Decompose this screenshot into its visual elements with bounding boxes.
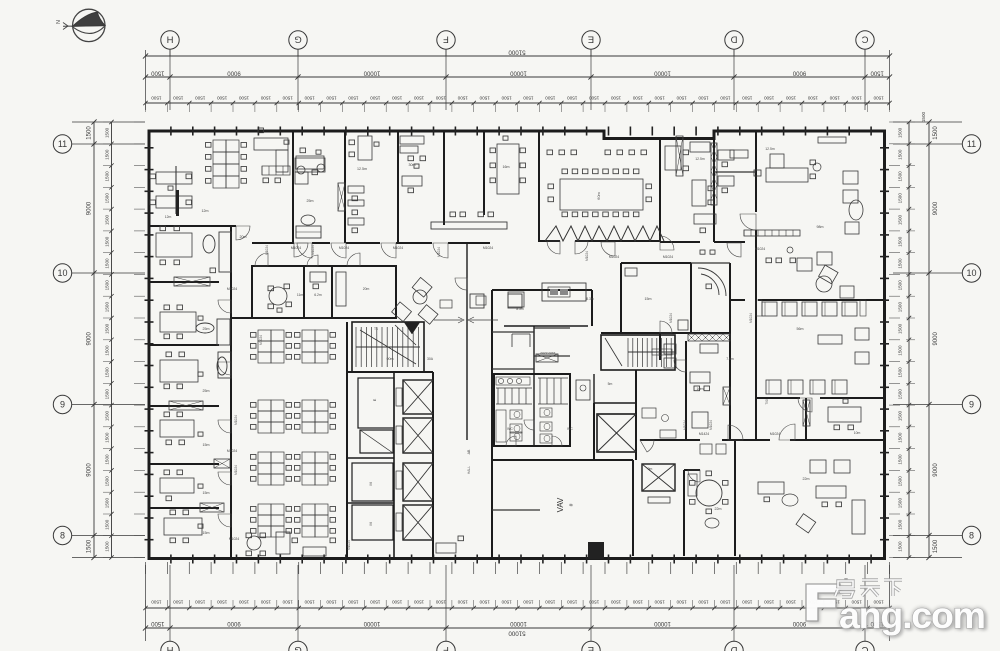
- svg-text:1500: 1500: [435, 96, 446, 101]
- svg-text:1500: 1500: [479, 96, 490, 101]
- svg-text:9: 9: [60, 400, 65, 410]
- mop room: [576, 380, 590, 400]
- small meeting table: [497, 144, 519, 194]
- svg-text:T2: T2: [658, 353, 662, 357]
- svg-text:1500: 1500: [898, 476, 903, 487]
- left office extra chairs: [198, 316, 203, 320]
- training podium: [828, 407, 861, 422]
- svg-text:8.5m: 8.5m: [516, 307, 524, 311]
- svg-text:1500: 1500: [898, 258, 903, 269]
- svg-text:12m: 12m: [165, 215, 172, 219]
- elevator mid: [597, 414, 636, 452]
- svg-text:8: 8: [60, 531, 65, 541]
- svg-text:M1024: M1024: [709, 420, 713, 430]
- svg-text:22m: 22m: [803, 477, 810, 481]
- svg-text:C: C: [861, 34, 868, 45]
- svg-text:1500: 1500: [87, 539, 93, 553]
- svg-text:10: 10: [966, 268, 976, 278]
- svg-text:20m: 20m: [363, 287, 370, 291]
- workstation cluster: [302, 504, 315, 515]
- svg-text:M1024: M1024: [437, 247, 441, 257]
- interior walls left zone: [230, 226, 232, 559]
- svg-text:1500: 1500: [898, 193, 903, 204]
- svg-text:1500: 1500: [632, 96, 643, 101]
- svg-text:1500: 1500: [260, 600, 271, 605]
- admin storage: [336, 272, 346, 306]
- womens toilets: [540, 408, 552, 417]
- stair 1: [355, 327, 357, 367]
- lounge bottom right sofa set: [810, 460, 826, 473]
- svg-text:1500: 1500: [898, 214, 903, 225]
- outer wall column ticks: [170, 127, 172, 136]
- stair2 walls: [601, 335, 675, 370]
- svg-text:1500: 1500: [173, 600, 184, 605]
- column shaft strip: [676, 136, 683, 176]
- svg-text:1500: 1500: [698, 600, 709, 605]
- top dimension band: [146, 55, 890, 57]
- svg-text:1500: 1500: [413, 96, 424, 101]
- svg-text:1500: 1500: [348, 96, 359, 101]
- svg-text:12.5m: 12.5m: [765, 147, 775, 151]
- svg-text:1500: 1500: [785, 600, 796, 605]
- svg-text:9000: 9000: [933, 463, 939, 477]
- svg-text:1500: 1500: [898, 149, 903, 160]
- svg-text:60m: 60m: [596, 191, 601, 199]
- svg-text:1500: 1500: [150, 620, 164, 626]
- svg-text:1500: 1500: [105, 214, 110, 225]
- svg-text:M1024: M1024: [339, 246, 349, 250]
- svg-text:1500: 1500: [764, 96, 775, 101]
- svg-text:1500: 1500: [523, 96, 534, 101]
- desk pair top-left: [156, 172, 192, 184]
- hatch strip vertical reception: [803, 400, 810, 426]
- office F desk set: [170, 510, 176, 515]
- svg-text:30m: 30m: [409, 163, 416, 167]
- svg-text:1500: 1500: [105, 171, 110, 182]
- reception room furniture: [156, 233, 192, 257]
- workstation cluster: [302, 330, 315, 341]
- svg-text:1500: 1500: [105, 519, 110, 530]
- svg-text:1500: 1500: [260, 96, 271, 101]
- svg-text:1500: 1500: [195, 96, 206, 101]
- outer building wall: [149, 131, 885, 559]
- svg-text:9: 9: [969, 400, 974, 410]
- svg-text:1500: 1500: [105, 258, 110, 269]
- svg-text:11m: 11m: [297, 293, 304, 297]
- svg-text:1500: 1500: [567, 600, 578, 605]
- svg-text:1500: 1500: [898, 280, 903, 291]
- svg-text:G: G: [294, 34, 301, 45]
- svg-text:1500: 1500: [392, 96, 403, 101]
- room right of conference: [665, 146, 681, 170]
- svg-text:1500: 1500: [105, 410, 110, 421]
- lobby chairs: [450, 212, 456, 217]
- svg-text:1500: 1500: [742, 600, 753, 605]
- svg-text:M1024: M1024: [609, 255, 619, 259]
- grid bubbles top: [169, 50, 171, 57]
- mid rooms around secretary: [620, 263, 622, 333]
- right mid rooms: [685, 341, 687, 440]
- svg-text:1500: 1500: [898, 389, 903, 400]
- svg-text:1500: 1500: [898, 323, 903, 334]
- X cabinet on copy room wall: [723, 387, 730, 405]
- svg-text:M1024: M1024: [311, 245, 315, 255]
- svg-text:1500: 1500: [326, 600, 337, 605]
- svg-text:1500: 1500: [921, 111, 926, 122]
- executive office wall: [755, 131, 757, 212]
- svg-text:25m: 25m: [203, 389, 210, 393]
- svg-text:1500: 1500: [898, 345, 903, 356]
- bottom right rooms: [640, 439, 700, 441]
- svg-text:ang.com: ang.com: [839, 594, 985, 636]
- svg-text:1500: 1500: [807, 96, 818, 101]
- svg-text:15m: 15m: [203, 443, 210, 447]
- workstation cluster: [258, 330, 271, 341]
- secretary room bits: [625, 268, 637, 276]
- svg-text:M1024: M1024: [755, 247, 765, 251]
- svg-text:1500: 1500: [105, 498, 110, 509]
- svg-text:1500: 1500: [217, 96, 228, 101]
- training room seat rows: [762, 302, 777, 316]
- extra corridor chairs mid right: [766, 258, 772, 263]
- svg-text:1500: 1500: [898, 302, 903, 313]
- svg-text:M1024: M1024: [770, 432, 780, 436]
- left dimension band: [93, 122, 95, 558]
- svg-text:1500: 1500: [105, 193, 110, 204]
- svg-text:9000: 9000: [87, 331, 93, 345]
- client service room furniture: [400, 136, 424, 144]
- bottom-left meeting spot: [247, 536, 261, 550]
- cabinet row: [262, 166, 290, 175]
- svg-text:M1024: M1024: [347, 540, 351, 550]
- workstation cluster: [302, 400, 315, 411]
- svg-text:25m: 25m: [307, 199, 314, 203]
- svg-text:1500: 1500: [851, 96, 862, 101]
- svg-text:1500: 1500: [238, 96, 249, 101]
- svg-text:1500: 1500: [217, 600, 228, 605]
- svg-text:M1024: M1024: [483, 246, 493, 250]
- hall storage rooms: [352, 463, 393, 501]
- svg-text:1500: 1500: [105, 345, 110, 356]
- svg-text:9000: 9000: [87, 201, 93, 215]
- svg-text:1500: 1500: [87, 126, 93, 140]
- svg-text:1500: 1500: [282, 96, 293, 101]
- bottom dimension band: [146, 607, 890, 609]
- svg-text:1500: 1500: [501, 96, 512, 101]
- restroom block: [494, 374, 570, 446]
- svg-text:1500: 1500: [105, 127, 110, 138]
- office D desk set: [164, 412, 170, 417]
- VAV room: [492, 459, 633, 461]
- svg-text:VAV: VAV: [556, 497, 565, 512]
- svg-text:1500: 1500: [105, 302, 110, 313]
- zigzag partition: [545, 226, 664, 241]
- conference table: [560, 179, 643, 210]
- call room hatch strip: [711, 143, 717, 205]
- svg-text:M1024: M1024: [663, 255, 673, 259]
- svg-text:1500: 1500: [589, 600, 600, 605]
- lounge cluster right: [819, 265, 838, 284]
- restroom door arcs: [524, 420, 534, 430]
- mens stalls: [497, 388, 499, 404]
- training room walls: [730, 299, 745, 301]
- watermark chinese chars 房天下: [835, 578, 902, 597]
- svg-text:1500: 1500: [282, 600, 293, 605]
- svg-text:1500: 1500: [501, 600, 512, 605]
- svg-text:1500: 1500: [348, 600, 359, 605]
- svg-text:1500: 1500: [720, 96, 731, 101]
- svg-text:D: D: [730, 34, 737, 45]
- svg-text:M1024: M1024: [234, 415, 238, 425]
- office B desk set: [160, 312, 196, 332]
- hatch strip mid right: [688, 334, 730, 341]
- svg-text:15m: 15m: [203, 491, 210, 495]
- svg-text:WC: WC: [567, 427, 573, 431]
- notch room desks: [718, 150, 734, 160]
- long counter: [431, 222, 507, 229]
- svg-text:1500: 1500: [523, 600, 534, 605]
- row2 small room furniture: [310, 272, 326, 282]
- deputy GM room furniture: [295, 158, 325, 172]
- svg-text:10000: 10000: [653, 70, 670, 76]
- svg-text:1500: 1500: [105, 432, 110, 443]
- svg-text:M1024: M1024: [749, 313, 753, 323]
- svg-text:C: C: [861, 644, 868, 651]
- svg-text:1500: 1500: [698, 96, 709, 101]
- row2 rooms: [252, 266, 396, 318]
- svg-text:10: 10: [57, 268, 67, 278]
- svg-text:10000: 10000: [509, 70, 526, 76]
- svg-text:1500: 1500: [105, 236, 110, 247]
- svg-text:1500: 1500: [898, 454, 903, 465]
- svg-text:AB: AB: [467, 449, 471, 454]
- svg-text:F: F: [443, 34, 449, 45]
- svg-text:M1024: M1024: [585, 251, 589, 261]
- svg-text:10m: 10m: [854, 431, 861, 435]
- svg-text:11: 11: [967, 139, 976, 149]
- grid bubbles left: [53, 135, 71, 153]
- svg-text:M: M: [368, 482, 373, 485]
- svg-text:1500: 1500: [304, 96, 315, 101]
- svg-text:90m: 90m: [387, 357, 394, 361]
- svg-text:M1024: M1024: [234, 465, 238, 475]
- svg-text:1500: 1500: [173, 96, 184, 101]
- svg-text:N: N: [56, 20, 62, 24]
- conference chairs upper row: [547, 150, 553, 155]
- svg-text:15m: 15m: [645, 297, 652, 301]
- svg-text:1500: 1500: [829, 96, 840, 101]
- workstation cluster: [213, 140, 226, 152]
- svg-text:M1424: M1424: [699, 432, 709, 436]
- svg-text:12.5m: 12.5m: [357, 167, 367, 171]
- svg-text:M1024: M1024: [227, 287, 237, 291]
- interior walls top rooms: [292, 131, 294, 243]
- svg-text:1500: 1500: [392, 600, 403, 605]
- svg-text:1500: 1500: [654, 600, 665, 605]
- svg-text:D: D: [730, 644, 737, 651]
- svg-text:5m: 5m: [608, 382, 613, 386]
- storage shelf marks: [512, 333, 530, 335]
- svg-text:1500: 1500: [105, 454, 110, 465]
- center corridor walls: [466, 243, 468, 440]
- svg-text:1500: 1500: [105, 476, 110, 487]
- elevator bottom center: [642, 464, 675, 491]
- svg-text:1500: 1500: [151, 96, 162, 101]
- svg-text:1500: 1500: [105, 149, 110, 160]
- mens toilets: [510, 410, 522, 419]
- svg-text:M1024: M1024: [393, 246, 403, 250]
- svg-text:8: 8: [969, 531, 974, 541]
- interview room round table: [269, 287, 287, 305]
- svg-text:30A: 30A: [427, 357, 434, 361]
- workstation cluster: [258, 504, 271, 515]
- svg-text:1400 2200: 1400 2200: [540, 351, 555, 355]
- svg-text:9000: 9000: [227, 620, 241, 626]
- extra printer room stuff: [664, 344, 676, 354]
- mens sinks: [498, 378, 503, 383]
- svg-text:1500: 1500: [898, 410, 903, 421]
- svg-text:H: H: [166, 644, 173, 651]
- svg-text:F: F: [443, 644, 449, 651]
- svg-text:9000: 9000: [933, 331, 939, 345]
- svg-text:1500: 1500: [785, 96, 796, 101]
- svg-text:1500: 1500: [654, 96, 665, 101]
- svg-text:M1024: M1024: [259, 335, 263, 345]
- desk: [296, 156, 324, 169]
- svg-text:1500: 1500: [898, 236, 903, 247]
- svg-text:H: H: [166, 34, 173, 45]
- svg-text:56m: 56m: [797, 327, 804, 331]
- svg-text:1500: 1500: [304, 600, 315, 605]
- womens stalls: [539, 378, 541, 404]
- north arrow: [73, 9, 105, 41]
- exec shelf: [818, 137, 846, 143]
- small room fixtures bottom: [700, 444, 712, 454]
- svg-text:12.5m: 12.5m: [695, 157, 705, 161]
- exec lounge: [843, 171, 858, 184]
- svg-text:9000: 9000: [792, 70, 806, 76]
- secretary curved desk: [698, 268, 726, 296]
- small office right: [692, 180, 706, 206]
- corridor arrows: [434, 319, 462, 321]
- corridor X strip: [536, 354, 558, 362]
- svg-text:10000: 10000: [653, 620, 670, 626]
- svg-text:16m: 16m: [503, 165, 510, 169]
- grid bubbles right: [962, 135, 980, 153]
- svg-text:98m: 98m: [817, 225, 824, 229]
- svg-text:1500: 1500: [326, 96, 337, 101]
- svg-text:790: 790: [765, 399, 769, 405]
- svg-text:51000: 51000: [508, 49, 526, 56]
- svg-text:51000: 51000: [508, 630, 526, 637]
- svg-text:1500: 1500: [933, 126, 939, 140]
- svg-text:1500: 1500: [898, 519, 903, 530]
- svg-text:1500: 1500: [676, 96, 687, 101]
- svg-text:G: G: [294, 644, 301, 651]
- svg-text:10000: 10000: [363, 620, 380, 626]
- svg-text:1500: 1500: [545, 600, 556, 605]
- core block walls: [346, 322, 348, 559]
- svg-text:12m: 12m: [202, 209, 209, 213]
- lobby armchair cluster: [392, 277, 449, 335]
- svg-text:1500: 1500: [413, 600, 424, 605]
- svg-text:M1024: M1024: [669, 313, 673, 323]
- svg-text:1500: 1500: [870, 70, 884, 76]
- svg-text:1500: 1500: [764, 600, 775, 605]
- svg-text:1500: 1500: [238, 600, 249, 605]
- grid bubbles bottom: [161, 641, 179, 651]
- svg-text:1500: 1500: [370, 600, 381, 605]
- svg-text:1500: 1500: [898, 127, 903, 138]
- svg-text:1500: 1500: [435, 600, 446, 605]
- svg-text:1500: 1500: [720, 600, 731, 605]
- svg-text:1500: 1500: [898, 432, 903, 443]
- finance room furniture: [358, 136, 372, 160]
- svg-text:1500: 1500: [567, 96, 578, 101]
- conference room walls: [659, 138, 661, 242]
- training right chairs: [855, 328, 869, 340]
- svg-text:1500: 1500: [105, 280, 110, 291]
- L desk: [254, 138, 288, 150]
- svg-text:1500: 1500: [545, 96, 556, 101]
- svg-text:22m: 22m: [715, 507, 722, 511]
- svg-text:9m: 9m: [648, 467, 653, 471]
- screen partition: [744, 230, 800, 236]
- svg-text:1500: 1500: [370, 96, 381, 101]
- svg-text:9000: 9000: [87, 463, 93, 477]
- svg-text:10000: 10000: [509, 620, 526, 626]
- svg-text:1500: 1500: [742, 96, 753, 101]
- dining round table: [696, 480, 722, 506]
- svg-text:1500: 1500: [105, 367, 110, 378]
- office C desk set: [166, 352, 172, 357]
- svg-text:1500: 1500: [610, 96, 621, 101]
- svg-text:HALL: HALL: [467, 466, 471, 474]
- black fill mark: [588, 542, 604, 559]
- right dimension band: [928, 122, 930, 558]
- svg-text:T1: T1: [374, 327, 378, 331]
- workstation cluster: [258, 400, 271, 411]
- tea room counters: [542, 283, 586, 301]
- svg-text:10m: 10m: [697, 387, 704, 391]
- svg-text:WC: WC: [507, 427, 513, 431]
- svg-text:1500: 1500: [873, 96, 884, 101]
- svg-text:10000: 10000: [363, 70, 380, 76]
- svg-text:6.2m: 6.2m: [314, 293, 322, 297]
- svg-text:25m: 25m: [203, 327, 210, 331]
- svg-text:E: E: [588, 644, 594, 651]
- door arcs: [297, 243, 312, 258]
- svg-text:1500: 1500: [457, 96, 468, 101]
- svg-text:1500: 1500: [105, 323, 110, 334]
- svg-text:E: E: [372, 398, 377, 401]
- svg-text:1500: 1500: [195, 600, 206, 605]
- stair 2: [627, 338, 629, 367]
- svg-text:1500: 1500: [898, 367, 903, 378]
- svg-text:1500: 1500: [898, 541, 903, 552]
- svg-text:1500: 1500: [610, 600, 621, 605]
- svg-text:1500: 1500: [632, 600, 643, 605]
- svg-text:7.6m: 7.6m: [726, 357, 734, 361]
- dark door fills: [176, 190, 179, 216]
- svg-text:M1024: M1024: [683, 420, 687, 430]
- svg-text:1500: 1500: [898, 171, 903, 182]
- svg-text:E: E: [588, 34, 594, 45]
- office cabinets on walls: [174, 277, 210, 286]
- office E desk set: [164, 470, 170, 475]
- svg-text:20m: 20m: [240, 235, 247, 239]
- svg-text:1500: 1500: [676, 600, 687, 605]
